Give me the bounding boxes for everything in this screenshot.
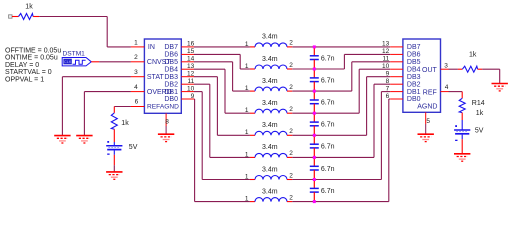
- svg-text:1: 1: [245, 151, 249, 158]
- svg-text:1: 1: [134, 39, 138, 46]
- svg-text:6.7n: 6.7n: [321, 144, 335, 151]
- svg-text:6: 6: [135, 98, 139, 105]
- ground (OVERD): [76, 136, 92, 143]
- svg-text:10: 10: [187, 85, 195, 92]
- label L1 pin 1: [245, 41, 249, 48]
- svg-text:16: 16: [187, 41, 195, 48]
- svg-text:6.7n: 6.7n: [321, 100, 335, 107]
- wire U1 pin 13 to L4: [194, 69, 250, 113]
- svg-text:1: 1: [245, 41, 249, 48]
- wire U2 pin 3 to resistor R3: [449, 68, 463, 70]
- label L3 pin 2: [289, 84, 293, 91]
- svg-text:3.4m: 3.4m: [262, 166, 278, 173]
- svg-text:2: 2: [289, 128, 293, 135]
- inductor L2 3.4m: [250, 65, 292, 69]
- svg-text:7: 7: [386, 85, 390, 92]
- wire U1 pin 6 to resistor: [114, 107, 131, 113]
- label L4 value 3.4m: [262, 100, 278, 107]
- inductor L7 3.4m: [250, 176, 292, 180]
- svg-text:13: 13: [382, 41, 390, 48]
- inductor L5 3.4m: [250, 131, 292, 135]
- svg-text:6.7n: 6.7n: [321, 55, 335, 62]
- svg-text:3.4m: 3.4m: [262, 34, 278, 41]
- label L2 pin 2: [289, 62, 293, 69]
- wire U1 pin 9 to L8: [194, 99, 250, 202]
- svg-text:5: 5: [426, 118, 430, 125]
- svg-text:14: 14: [187, 56, 195, 63]
- label L1 pin 2: [289, 40, 293, 47]
- wire U1 pin 3 to ground: [62, 77, 130, 136]
- U1 left pin numbers: [134, 39, 139, 105]
- label R14 reference: [472, 100, 485, 107]
- wire L4 to node/U2 pin 10: [292, 69, 390, 113]
- ground (V1): [106, 172, 122, 179]
- wire U2 pin 4 to R14: [449, 92, 463, 99]
- svg-text:DB7: DB7: [164, 44, 178, 51]
- svg-text:OPPVAL = 1: OPPVAL = 1: [5, 77, 44, 84]
- label L3 pin 1: [245, 85, 249, 92]
- label L5 pin 1: [245, 129, 249, 136]
- U1 left pin stubs: [131, 47, 145, 107]
- svg-text:3: 3: [444, 62, 448, 69]
- label C6 value 6.7n: [321, 166, 335, 173]
- svg-text:STARTVAL = 0: STARTVAL = 0: [5, 69, 52, 76]
- label L8 pin 1: [245, 196, 249, 203]
- wire U1 pin 16 to L1: [194, 46, 250, 48]
- wire U1 pin 12 to L5: [194, 77, 250, 136]
- label R3 value 1k: [469, 52, 477, 59]
- wire L5 to node/U2 pin 9: [292, 77, 390, 136]
- resistor R1 1k (input): [12, 14, 39, 20]
- label L6 pin 2: [289, 150, 293, 157]
- inductor L1 3.4m: [250, 43, 292, 47]
- U1 pin names right DB7-DB0: [164, 44, 178, 103]
- label C1 value 6.7n: [321, 55, 335, 62]
- svg-text:IN: IN: [148, 44, 155, 51]
- junction node row 2: [313, 68, 316, 71]
- text stimulus parameters: [5, 47, 61, 83]
- capacitor C5 6.7n: [310, 135, 319, 157]
- inductor L6 3.4m: [250, 153, 292, 157]
- svg-text:ONTIME = 0.05u: ONTIME = 0.05u: [5, 55, 58, 62]
- svg-text:15: 15: [187, 48, 195, 55]
- terminal input port: [9, 15, 12, 18]
- wire L2 to node/U2 pin 12: [292, 54, 390, 69]
- ground (U2 pin 5 AGND): [418, 134, 434, 141]
- wire input to U1 pin 1: [39, 17, 131, 47]
- junction node row 7: [313, 178, 316, 181]
- svg-text:6: 6: [386, 93, 390, 100]
- U1 right pin numbers 16-9: [187, 41, 195, 100]
- ground (V2): [454, 154, 470, 161]
- wire V2 to ground: [461, 139, 463, 154]
- svg-text:3.4m: 3.4m: [262, 56, 278, 63]
- svg-text:1k: 1k: [121, 120, 129, 127]
- label V2 value 5V: [475, 128, 484, 135]
- wire R3 to ground: [478, 69, 500, 83]
- U2 pin names right: [417, 67, 437, 110]
- svg-text:STAT: STAT: [147, 74, 165, 81]
- svg-text:1: 1: [245, 107, 249, 114]
- svg-text:DB2: DB2: [164, 81, 178, 88]
- svg-text:11: 11: [187, 78, 194, 85]
- U2 pin 4 stub: [441, 91, 449, 93]
- digital stimulus DSTM1 label: [63, 50, 86, 57]
- capacitor C6 6.7n: [310, 157, 319, 179]
- resistor R14 1k: [459, 98, 465, 112]
- U2 pin names left DB7-DB0: [407, 44, 421, 103]
- label L6 value 3.4m: [262, 144, 278, 151]
- label L8 pin 2: [289, 194, 293, 201]
- svg-text:DB4: DB4: [407, 67, 421, 74]
- svg-text:13: 13: [187, 63, 195, 70]
- svg-text:8: 8: [386, 78, 390, 85]
- digital stimulus DSTM1 symbol: [62, 58, 91, 66]
- svg-text:1k: 1k: [469, 52, 477, 59]
- ground (OUT load): [492, 84, 508, 91]
- svg-text:CLK: CLK: [64, 60, 72, 64]
- IC U2 (DAC) body: [403, 39, 441, 112]
- svg-text:6.7n: 6.7n: [321, 188, 335, 195]
- svg-text:DB1: DB1: [407, 89, 421, 96]
- wire U1 pin 4 to ground: [84, 92, 130, 136]
- svg-text:2: 2: [289, 40, 293, 47]
- svg-text:4: 4: [134, 84, 138, 91]
- svg-text:AGND: AGND: [417, 103, 437, 110]
- capacitor C1 6.7n: [310, 47, 319, 69]
- svg-text:3.4m: 3.4m: [262, 100, 278, 107]
- label C7 value 6.7n: [321, 188, 335, 195]
- wire L8 to node/U2 pin 6: [292, 99, 390, 202]
- junction node row 8: [313, 200, 316, 203]
- label L3 value 3.4m: [262, 78, 278, 85]
- svg-text:2: 2: [134, 54, 138, 61]
- svg-text:11: 11: [382, 56, 389, 63]
- svg-text:DB4: DB4: [164, 67, 178, 74]
- wire R14 to battery V2: [461, 113, 463, 120]
- label C4 value 6.7n: [321, 122, 335, 129]
- ground (U1 pin 8): [158, 134, 174, 141]
- svg-text:9: 9: [191, 93, 195, 100]
- inductor L8 3.4m: [250, 198, 292, 202]
- svg-text:1: 1: [245, 85, 249, 92]
- svg-text:DB3: DB3: [407, 74, 421, 81]
- resistor R2 1k (REFGND): [111, 113, 117, 142]
- U2 left pin numbers 13-6: [382, 41, 390, 100]
- svg-text:DB6: DB6: [164, 52, 178, 59]
- wire U1 pin 15 to L2: [194, 54, 250, 69]
- label C5 value 6.7n: [321, 144, 335, 151]
- svg-text:8: 8: [165, 119, 169, 126]
- wire L6 to node/U2 pin 8: [292, 84, 390, 157]
- svg-text:3.4m: 3.4m: [262, 122, 278, 129]
- svg-text:2: 2: [289, 150, 293, 157]
- label L8 value 3.4m: [262, 188, 278, 195]
- junction node row 6: [313, 156, 316, 159]
- label C2 value 6.7n: [321, 77, 335, 84]
- svg-text:1: 1: [245, 63, 249, 70]
- label L4 pin 2: [289, 106, 293, 113]
- svg-text:DB0: DB0: [407, 96, 421, 103]
- svg-text:1: 1: [245, 196, 249, 203]
- resistor R3 1k (OUT load): [462, 66, 477, 72]
- U2 pin 3 stub: [441, 68, 449, 70]
- svg-text:9: 9: [386, 70, 390, 77]
- svg-text:3.4m: 3.4m: [262, 78, 278, 85]
- svg-text:2: 2: [289, 84, 293, 91]
- svg-text:1k: 1k: [476, 110, 484, 117]
- svg-text:REFAGND: REFAGND: [147, 104, 179, 111]
- label L7 pin 1: [245, 173, 249, 180]
- junction node row 3: [313, 90, 316, 93]
- svg-text:OFFTIME = 0.05u: OFFTIME = 0.05u: [5, 47, 61, 54]
- capacitor C4 6.7n: [310, 113, 319, 135]
- svg-text:3.4m: 3.4m: [262, 188, 278, 195]
- U2 pin 5 stub to ground: [425, 112, 427, 134]
- U2 pin 3 number: [444, 62, 448, 69]
- wire U1 pin 10 to L7: [194, 92, 250, 180]
- svg-text:DSTM1: DSTM1: [63, 50, 86, 57]
- wire L3 to node/U2 pin 11: [292, 62, 390, 91]
- wire L7 to node/U2 pin 7: [292, 92, 390, 180]
- label L5 pin 2: [289, 128, 293, 135]
- svg-text:DB5: DB5: [164, 59, 178, 66]
- junction node row 1: [313, 45, 316, 48]
- svg-text:5V: 5V: [129, 144, 138, 151]
- svg-text:DB1: DB1: [164, 89, 178, 96]
- inductor L3 3.4m: [250, 87, 292, 91]
- U2 pin 4 number: [445, 84, 449, 91]
- U1 pin 8 number: [165, 119, 169, 126]
- U2 left pin stubs: [390, 47, 403, 99]
- svg-text:6.7n: 6.7n: [321, 122, 335, 129]
- svg-text:R14: R14: [472, 100, 485, 107]
- svg-text:DB7: DB7: [407, 44, 421, 51]
- wire U1 pin 14 to L3: [194, 62, 250, 91]
- svg-text:3: 3: [134, 69, 138, 76]
- label L6 pin 1: [245, 151, 249, 158]
- svg-text:1: 1: [245, 173, 249, 180]
- wire DSTM1 to U1 pin 2: [91, 61, 131, 63]
- svg-text:1k: 1k: [25, 4, 33, 11]
- svg-text:2: 2: [289, 172, 293, 179]
- svg-text:5V: 5V: [475, 128, 484, 135]
- label R14 value 1k: [476, 110, 484, 117]
- junction node row 4: [313, 112, 316, 115]
- U1 pin 8 stub to ground: [165, 113, 167, 134]
- inductor L4 3.4m: [250, 109, 292, 113]
- U1 pin names left: [147, 44, 179, 111]
- svg-text:10: 10: [382, 63, 390, 70]
- label R2 value 1k: [121, 120, 129, 127]
- label L4 pin 1: [245, 107, 249, 114]
- junction node row 5: [313, 134, 316, 137]
- label C3 value 6.7n: [321, 100, 335, 107]
- U1 right pin stubs: [181, 47, 194, 99]
- svg-text:OUT: OUT: [422, 67, 438, 74]
- IC U1 (ADC) body: [144, 39, 181, 113]
- wire U1 pin 11 to L6: [194, 84, 250, 157]
- capacitor C3 6.7n: [310, 91, 319, 113]
- label L5 value 3.4m: [262, 122, 278, 129]
- svg-text:3.4m: 3.4m: [262, 144, 278, 151]
- battery V1 5V: [106, 141, 122, 155]
- wire V1 to ground: [113, 155, 115, 172]
- svg-text:12: 12: [187, 70, 195, 77]
- U2 pin 5 number: [426, 118, 430, 125]
- svg-text:DB3: DB3: [164, 74, 178, 81]
- svg-text:6.7n: 6.7n: [321, 166, 335, 173]
- label V1 value 5V: [129, 144, 138, 151]
- svg-text:4: 4: [445, 84, 449, 91]
- label L1 value 3.4m: [262, 34, 278, 41]
- svg-text:2: 2: [289, 62, 293, 69]
- label L2 pin 1: [245, 63, 249, 70]
- label L7 pin 2: [289, 172, 293, 179]
- capacitor C7 6.7n: [310, 180, 319, 202]
- svg-text:DB2: DB2: [407, 81, 421, 88]
- svg-text:DB5: DB5: [407, 59, 421, 66]
- svg-text:DB6: DB6: [407, 52, 421, 59]
- label L2 value 3.4m: [262, 56, 278, 63]
- svg-text:2: 2: [289, 106, 293, 113]
- svg-text:6.7n: 6.7n: [321, 77, 335, 84]
- svg-text:REF: REF: [423, 89, 437, 96]
- svg-text:DELAY = 0: DELAY = 0: [5, 62, 39, 69]
- label R1 value 1k: [25, 4, 33, 11]
- svg-text:1: 1: [245, 129, 249, 136]
- capacitor C2 6.7n: [310, 69, 319, 91]
- svg-text:12: 12: [382, 48, 390, 55]
- svg-text:2: 2: [289, 194, 293, 201]
- battery V2 5V: [454, 120, 470, 141]
- wire L1 to node/U2 pin 13: [292, 46, 390, 48]
- ground (STAT): [54, 136, 70, 143]
- svg-text:DB0: DB0: [164, 96, 178, 103]
- label L7 value 3.4m: [262, 166, 278, 173]
